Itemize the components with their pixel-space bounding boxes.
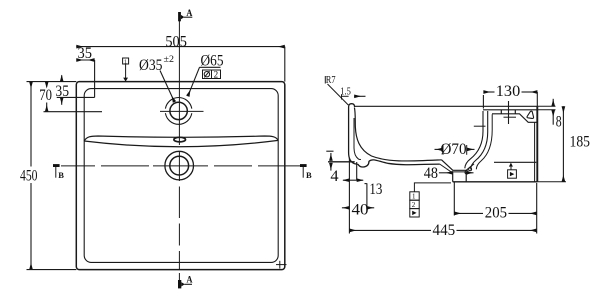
- svg-text:4: 4: [330, 168, 338, 185]
- svg-text:B: B: [306, 170, 312, 180]
- svg-text:Ø70: Ø70: [441, 141, 467, 158]
- svg-text:2: 2: [214, 70, 219, 80]
- svg-text:35: 35: [78, 45, 93, 62]
- svg-text:445: 445: [433, 222, 456, 239]
- svg-text:130: 130: [496, 83, 521, 100]
- svg-text:505: 505: [165, 33, 187, 50]
- svg-text:2: 2: [412, 201, 416, 209]
- svg-text:A: A: [186, 8, 192, 19]
- svg-text:185: 185: [570, 134, 591, 151]
- svg-text:1: 1: [124, 59, 127, 65]
- svg-text:A: A: [187, 275, 193, 286]
- svg-text:1.5: 1.5: [340, 86, 351, 98]
- svg-text:48: 48: [424, 165, 438, 182]
- svg-text:B: B: [58, 170, 64, 180]
- svg-text:R7: R7: [326, 75, 336, 86]
- svg-text:35: 35: [55, 83, 69, 100]
- svg-text:70: 70: [39, 87, 52, 104]
- svg-text:Ø35: Ø35: [139, 57, 163, 74]
- svg-text:8: 8: [556, 114, 562, 131]
- svg-text:1: 1: [412, 193, 416, 201]
- svg-text:40: 40: [352, 201, 369, 218]
- svg-text:450: 450: [20, 168, 38, 185]
- svg-text:13: 13: [369, 181, 382, 198]
- svg-text:205: 205: [485, 204, 507, 221]
- svg-text:Ø65: Ø65: [201, 53, 224, 70]
- svg-text:±2: ±2: [164, 55, 175, 65]
